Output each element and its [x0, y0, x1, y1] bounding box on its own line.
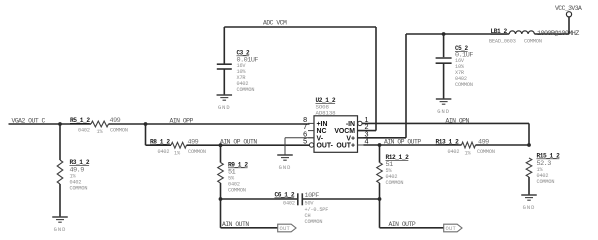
resistor R9_1_2 [218, 145, 224, 199]
svg-text:GND: GND [437, 109, 450, 115]
port AIN OUTP [444, 224, 462, 232]
pin label V- [317, 135, 324, 142]
capacitor C3_2 [217, 64, 232, 95]
junction R9 tap [219, 143, 223, 147]
svg-text:R5_1_2: R5_1_2 [70, 117, 90, 124]
svg-text:AIN OPN: AIN OPN [446, 117, 470, 124]
R3_1_2 designator [70, 159, 90, 166]
C5_2 value 0.1UF [455, 51, 473, 59]
wire C6 left [221, 198, 298, 200]
svg-text:COMMON: COMMON [228, 188, 246, 194]
svg-text:GND: GND [54, 227, 67, 233]
svg-text:AD8138: AD8138 [316, 109, 337, 116]
pin 4 stub [358, 144, 364, 146]
R5_1_2 value 499 [110, 117, 121, 125]
svg-text:AIN OP OUTP: AIN OP OUTP [384, 138, 421, 145]
R9_1_2 properties [228, 176, 246, 194]
svg-text:CH: CH [305, 213, 311, 219]
port AIN OUTN [278, 224, 296, 232]
LB1_2 designator [491, 28, 508, 35]
svg-text:0402: 0402 [78, 128, 90, 134]
ground below R3_1_2 [52, 217, 68, 233]
junction AIN OPP / R8 branch [144, 122, 148, 126]
inductor LB1_2 (ferrite bead) [406, 31, 569, 34]
pin label -IN [346, 121, 355, 128]
U2_1_2 designator [316, 97, 336, 104]
pin 2 stub [358, 130, 364, 132]
ground below C5_2 [436, 99, 452, 115]
R13_1_2 properties [448, 149, 495, 157]
pin 8 stub [308, 122, 314, 124]
svg-text:499: 499 [478, 138, 489, 146]
pin label V+ [346, 135, 355, 142]
svg-text:LB1_2: LB1_2 [491, 28, 508, 35]
R12_1_2 designator [386, 154, 410, 161]
wire VOCM to ADC VCM [358, 27, 377, 131]
resistor R15_1_2 [526, 158, 532, 195]
resistor R13_1_2 [462, 142, 476, 148]
junction C6 left node [219, 197, 223, 201]
pin label OUT+ [336, 143, 355, 150]
svg-text:10PF: 10PF [305, 192, 320, 200]
svg-text:AIN OPP: AIN OPP [170, 118, 194, 125]
wire C6 right [302, 198, 379, 200]
svg-text:50V: 50V [305, 201, 315, 207]
R13_1_2 value 499 [478, 138, 489, 146]
svg-text:R8_1_2: R8_1_2 [150, 138, 170, 145]
R8_1_2 value 499 [188, 138, 199, 146]
junction R12 tap [378, 143, 382, 147]
pin 6 stub [308, 137, 314, 139]
pin number 8 [303, 115, 307, 124]
wire branch to R8 [146, 124, 310, 145]
svg-text:ADC VCM: ADC VCM [263, 20, 287, 27]
pin 3 stub [358, 137, 364, 139]
wire AIN OUTP [380, 199, 444, 228]
pin number 6 [303, 129, 307, 138]
svg-text:COMMON: COMMON [110, 128, 128, 134]
R9_1_2 value 51 [228, 168, 236, 176]
C5_2 designator [455, 45, 468, 52]
svg-text:+/-0.5PF: +/-0.5PF [305, 207, 329, 213]
R15_1_2 value 52.3 [537, 160, 552, 168]
svg-text:0402: 0402 [448, 149, 460, 155]
svg-text:1%: 1% [465, 150, 472, 156]
pin number 2 [365, 122, 369, 131]
svg-text:COMMON: COMMON [524, 38, 542, 44]
pin number 7 [303, 122, 307, 131]
op-amp U2_1_2 body [314, 116, 358, 153]
C6_1_2 properties [283, 200, 328, 225]
svg-text:C6_1_2: C6_1_2 [275, 192, 295, 199]
svg-text:1000R@100MHZ: 1000R@100MHZ [537, 30, 579, 38]
R8_1_2 designator [150, 138, 170, 145]
svg-text:0402: 0402 [283, 200, 295, 206]
R12_1_2 value 51 [386, 161, 394, 169]
R3_1_2 value 49.9 [70, 166, 85, 174]
svg-text:COMMON: COMMON [477, 149, 495, 155]
pin 7 stub (NC) [308, 130, 314, 132]
svg-text:-IN: -IN [346, 121, 355, 128]
svg-text:OUT+: OUT+ [336, 143, 355, 150]
pin number 1 [365, 115, 369, 124]
pin number 3 [365, 129, 369, 138]
svg-text:0402: 0402 [158, 149, 170, 155]
C6_1_2 designator [275, 192, 295, 199]
svg-text:499: 499 [188, 138, 199, 146]
svg-text:GND: GND [218, 105, 231, 111]
svg-text:R3_1_2: R3_1_2 [70, 159, 90, 166]
pin 5 bubble [309, 143, 313, 147]
capacitor C5_2 [436, 34, 452, 99]
net label AIN OUTP [389, 221, 416, 228]
wire pin6 V- to ground [285, 138, 314, 155]
LB1_2 value 1000R@100MHZ [537, 30, 579, 38]
net label AIN OUTN [222, 221, 249, 228]
pin label NC [317, 128, 327, 135]
wire VGA2 OUT C / AIN OPP [9, 123, 310, 125]
svg-text:AIN OUTN: AIN OUTN [222, 221, 249, 228]
svg-text:499: 499 [110, 117, 121, 125]
svg-text:BEAD_0603: BEAD_0603 [489, 38, 516, 44]
net label ADC VCM [263, 20, 287, 27]
svg-text:1%: 1% [174, 150, 181, 156]
net label AIN OPP [170, 118, 194, 125]
pin label +IN [317, 121, 328, 128]
svg-text:COMMON: COMMON [537, 179, 555, 185]
R15_1_2 designator [537, 153, 561, 160]
wire AIN OUTN [221, 199, 278, 228]
C3_2 properties [237, 63, 255, 93]
C5_2 properties [455, 58, 473, 88]
wire -IN / AIN OPN [362, 123, 529, 145]
svg-text:OUT-: OUT- [317, 143, 334, 150]
C6_1_2 value 10PF [305, 192, 320, 200]
R8_1_2 properties [158, 149, 206, 157]
R3_1_2 properties [70, 174, 88, 192]
power VCC_3V3A [555, 5, 582, 34]
svg-text:R15_1_2: R15_1_2 [537, 153, 561, 160]
svg-text:NC: NC [317, 128, 327, 135]
svg-text:AIN OP OUTN: AIN OP OUTN [220, 138, 257, 145]
svg-text:COMMON: COMMON [188, 149, 206, 155]
R5_1_2 properties [78, 128, 128, 136]
LB1_2 properties [489, 38, 542, 44]
svg-text:R12_1_2: R12_1_2 [386, 154, 410, 161]
pin label VOCM [334, 128, 355, 135]
C3_2 value 0.01UF [237, 56, 259, 64]
pin number 4 [365, 137, 369, 146]
R15_1_2 properties [537, 167, 555, 185]
junction C6 right node [378, 197, 382, 201]
ground below C3_2 [217, 95, 233, 111]
U2_1_2 package SO08 [316, 104, 330, 111]
svg-text:COMMON: COMMON [70, 186, 88, 192]
junction R3 tap [58, 122, 62, 126]
svg-text:VOCM: VOCM [334, 128, 355, 135]
svg-text:OUT: OUT [446, 225, 457, 232]
svg-text:GND: GND [279, 165, 292, 171]
junction R13/R15 node [527, 143, 531, 147]
R12_1_2 properties [386, 168, 404, 186]
C3_2 designator [237, 50, 250, 57]
capacitor C6_1_2 [298, 193, 303, 205]
net label AIN OP OUTN [220, 138, 257, 145]
wire OUT+ / AIN OP OUTP [364, 144, 530, 146]
svg-text:R13_1_2: R13_1_2 [436, 138, 460, 145]
svg-text:V+: V+ [346, 135, 355, 142]
svg-text:GND: GND [523, 205, 536, 211]
svg-text:1%: 1% [97, 129, 104, 135]
svg-text:+IN: +IN [317, 121, 328, 128]
svg-text:COMMON: COMMON [455, 82, 473, 88]
pin label OUT- [317, 143, 334, 150]
R13_1_2 designator [436, 138, 460, 145]
svg-text:COMMON: COMMON [237, 87, 255, 93]
resistor R5_1_2 [91, 121, 109, 127]
wire ADC VCM net (VOCM to C3_2) [224, 27, 376, 64]
net label AIN OPN [446, 117, 470, 124]
pin number 5 [303, 137, 307, 146]
R9_1_2 designator [228, 162, 248, 169]
net label VGA2 OUT C [12, 118, 46, 125]
ground below R15_1_2 [521, 195, 537, 211]
svg-text:OUT: OUT [280, 225, 291, 232]
svg-text:AIN OUTP: AIN OUTP [389, 221, 416, 228]
resistor R3_1_2 [57, 124, 63, 217]
ground at pin 6 [277, 155, 293, 171]
junction C5_2/V+ rail [442, 32, 446, 36]
U2_1_2 part AD8138 [316, 109, 337, 116]
pin 1 bubble [358, 121, 362, 125]
svg-text:COMMON: COMMON [386, 180, 404, 186]
svg-text:VCC_3V3A: VCC_3V3A [555, 5, 582, 12]
svg-text:COMMON: COMMON [305, 219, 323, 225]
R5_1_2 designator [70, 117, 90, 124]
svg-text:V-: V- [317, 135, 324, 142]
resistor R12_1_2 [377, 145, 383, 199]
wire V+ rail (pin3 riser to bead) [358, 34, 407, 138]
resistor R8_1_2 [171, 142, 187, 148]
net label AIN OP OUTP [384, 138, 421, 145]
